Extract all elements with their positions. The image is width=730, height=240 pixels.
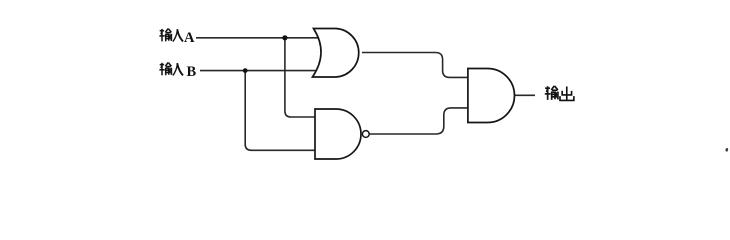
svg-text:A: A: [184, 30, 195, 46]
svg-text:B: B: [187, 64, 197, 80]
